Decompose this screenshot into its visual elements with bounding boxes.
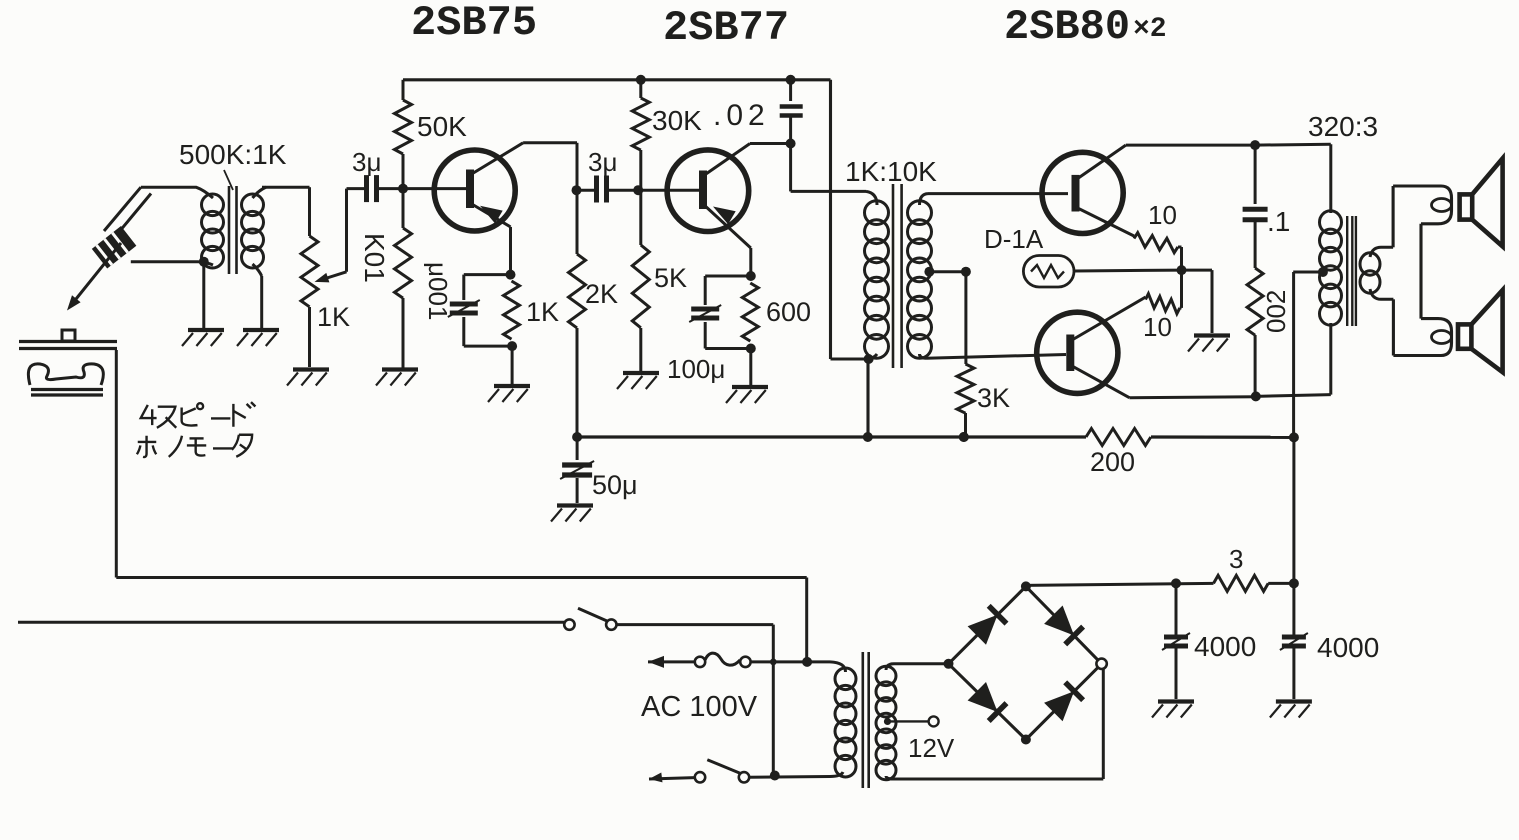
svg-text:30K: 30K bbox=[652, 105, 702, 136]
svg-text:5K: 5K bbox=[654, 263, 687, 293]
svg-text:×2: ×2 bbox=[1133, 14, 1167, 45]
svg-text:.02: .02 bbox=[713, 99, 770, 132]
svg-text:AC 100V: AC 100V bbox=[641, 691, 758, 723]
svg-text:2SB77: 2SB77 bbox=[663, 4, 789, 52]
svg-text:320:3: 320:3 bbox=[1308, 111, 1378, 142]
svg-text:12V: 12V bbox=[908, 733, 955, 763]
svg-text:50μ: 50μ bbox=[592, 470, 638, 500]
svg-text:4000: 4000 bbox=[1194, 631, 1256, 662]
svg-text:2SB80: 2SB80 bbox=[1004, 3, 1130, 51]
svg-text:3: 3 bbox=[1229, 544, 1243, 574]
svg-text:3K: 3K bbox=[977, 383, 1010, 413]
svg-text:002: 002 bbox=[1261, 290, 1291, 333]
svg-text:2K: 2K bbox=[585, 279, 618, 309]
svg-text:4000: 4000 bbox=[1317, 632, 1379, 663]
svg-text:3μ: 3μ bbox=[588, 147, 617, 177]
svg-text:600: 600 bbox=[766, 297, 811, 327]
svg-text:100μ: 100μ bbox=[667, 354, 725, 384]
svg-text:200: 200 bbox=[1090, 447, 1135, 477]
svg-text:μ001: μ001 bbox=[423, 262, 453, 320]
svg-text:K01: K01 bbox=[359, 233, 390, 283]
svg-text:1K: 1K bbox=[526, 297, 559, 327]
svg-text:1K:10K: 1K:10K bbox=[845, 156, 937, 187]
svg-text:50K: 50K bbox=[417, 111, 467, 142]
svg-text:10: 10 bbox=[1143, 312, 1172, 342]
svg-text:10: 10 bbox=[1148, 200, 1177, 230]
svg-text:500K:1K: 500K:1K bbox=[179, 139, 287, 170]
svg-text:D-1A: D-1A bbox=[984, 224, 1044, 254]
svg-text:3μ: 3μ bbox=[352, 147, 381, 177]
svg-text:2SB75: 2SB75 bbox=[411, 0, 537, 47]
svg-text:.1: .1 bbox=[1267, 206, 1290, 237]
svg-text:1K: 1K bbox=[317, 302, 350, 332]
